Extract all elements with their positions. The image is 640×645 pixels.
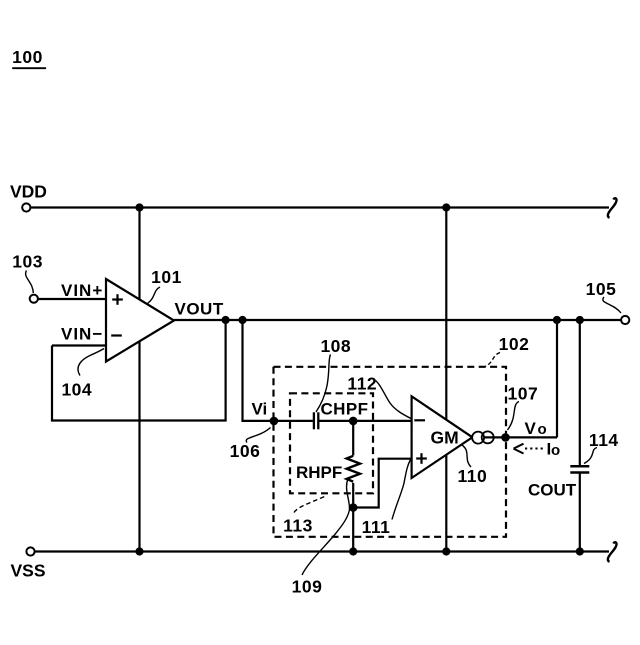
junction VDD / op-amp power: [135, 203, 143, 211]
junction COUT tap: [576, 316, 584, 324]
wire Vi to CHPF: [274, 420, 313, 422]
leader 108: [316, 355, 331, 413]
dashed block 102: [274, 367, 507, 537]
junction feedback tap: [222, 316, 230, 324]
svg-text:COUT: COUT: [528, 481, 577, 500]
wire GM power from VDD to VSS: [445, 208, 447, 552]
wire VSS rail: [35, 550, 609, 552]
junction COUT / VSS: [576, 547, 584, 555]
svg-text:VIN−: VIN−: [61, 325, 103, 344]
svg-text:VSS: VSS: [11, 561, 46, 581]
svg-text:Vi: Vi: [252, 399, 268, 418]
wire VIN- input: [52, 344, 106, 346]
leader 106: [246, 428, 270, 443]
svg-text:109: 109: [292, 577, 323, 597]
terminal VDD: [22, 203, 30, 211]
figure label 100: [12, 47, 46, 68]
leader 102 (dashed): [486, 353, 501, 367]
leader 114: [584, 448, 597, 464]
svg-text:o: o: [551, 442, 560, 459]
leader 105: [603, 297, 621, 313]
junction VDD / GM power: [442, 203, 450, 211]
terminal VSS: [26, 547, 34, 555]
junction Vo feedback tap: [553, 316, 561, 324]
wire VOUT: [174, 319, 621, 321]
leader 112: [376, 381, 412, 419]
leader 101: [148, 287, 161, 304]
svg-text:CHPF: CHPF: [321, 400, 369, 419]
junction VSS / op-amp power: [135, 547, 143, 555]
junction Vi branch tap: [238, 316, 246, 324]
svg-text:VIN+: VIN+: [61, 281, 103, 300]
svg-text:108: 108: [320, 336, 351, 356]
svg-text:105: 105: [586, 279, 617, 299]
terminal 103 input: [30, 295, 38, 303]
leader 104: [78, 349, 104, 376]
svg-text:GM: GM: [431, 428, 459, 448]
svg-text:112: 112: [347, 374, 377, 394]
junction RHPF bottom / plus wire: [349, 503, 358, 512]
wire op-amp power from VDD to VSS: [138, 208, 140, 552]
wire Vo up to VOUT: [556, 320, 558, 437]
wire VIN+ input: [38, 298, 106, 300]
svg-text:V: V: [525, 419, 537, 438]
current source output circles: [472, 431, 494, 443]
svg-text:o: o: [538, 421, 547, 438]
capacitor CHPF: [314, 412, 318, 429]
wire GM plus input: [353, 459, 411, 508]
svg-text:100: 100: [12, 47, 43, 67]
svg-text:113: 113: [283, 516, 313, 536]
leader 110: [462, 445, 471, 467]
transconductance amp GM 110: [412, 396, 473, 478]
dashed block 113: [290, 393, 373, 493]
break symbol VSS rail: [608, 542, 617, 561]
wire GM output to Vo: [484, 436, 558, 438]
svg-text:103: 103: [12, 252, 43, 272]
svg-text:RHPF: RHPF: [296, 463, 342, 482]
net label Vo: [525, 419, 547, 438]
svg-text:111: 111: [362, 517, 391, 537]
wire VOUT to Vi node: [243, 320, 272, 421]
resistor RHPF: [347, 421, 360, 552]
svg-text:102: 102: [499, 334, 530, 354]
svg-text:101: 101: [151, 267, 182, 287]
svg-text:104: 104: [61, 380, 92, 400]
wire CHPF to GM minus input: [318, 420, 411, 422]
junction Vi node: [270, 417, 279, 426]
junction GM output node: [501, 433, 510, 442]
svg-text:VDD: VDD: [10, 182, 47, 202]
svg-text:106: 106: [230, 441, 261, 461]
leader 111: [392, 460, 411, 520]
svg-text:VOUT: VOUT: [175, 299, 224, 318]
junction CHPF/RHPF node: [349, 417, 358, 426]
terminal 105 output: [621, 316, 629, 324]
leader 107: [508, 402, 520, 431]
leader 103: [26, 271, 34, 294]
op-amp 101: [106, 279, 174, 362]
current label Io with dotted arrow: [514, 440, 561, 459]
junction RHPF / VSS: [349, 547, 357, 555]
capacitor COUT 114: [570, 320, 589, 552]
svg-text:107: 107: [508, 384, 539, 404]
svg-text:114: 114: [589, 430, 619, 450]
leader 109: [302, 479, 350, 576]
svg-text:110: 110: [458, 466, 488, 486]
break symbol VDD rail: [608, 198, 617, 217]
leader 113 (dashed): [294, 497, 325, 513]
wire feedback loop 104: [52, 320, 226, 421]
junction VSS / GM power: [442, 547, 450, 555]
wire VDD rail: [31, 206, 609, 208]
